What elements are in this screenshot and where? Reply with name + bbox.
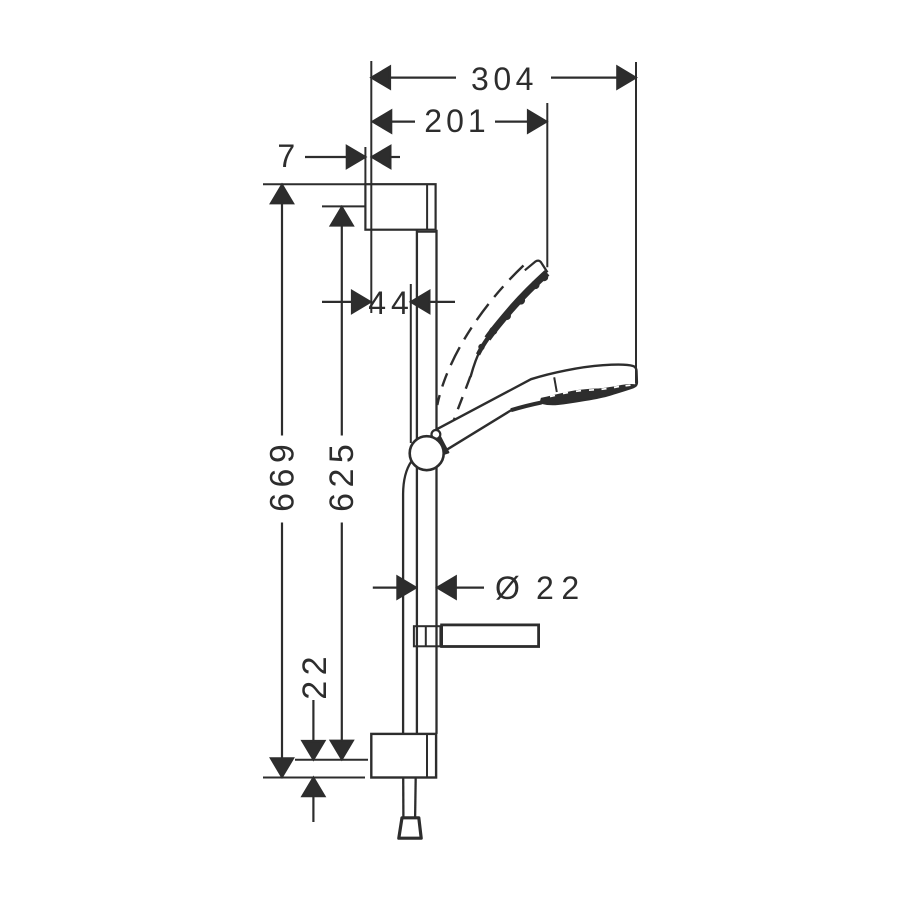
extension line (304 right) [635, 62, 637, 384]
dimension 201 [373, 111, 547, 133]
pivot knob (slider) [410, 436, 444, 470]
dimension 304 [372, 67, 636, 89]
extension line (669 top) [263, 183, 365, 185]
grip ring edge on lower outline [511, 403, 542, 411]
tick on face [554, 377, 557, 392]
wire: rail tube [417, 230, 437, 734]
spray face (nozzle band, crescent) [541, 385, 636, 404]
svg-text:625: 625 [323, 439, 361, 512]
hose [399, 462, 421, 839]
extension line (44 right, down to pivot knob) [410, 284, 412, 443]
dimension 22 (vertical, bottom) [302, 700, 324, 822]
extension line (625 top) [322, 205, 365, 207]
pivot nub (small lever on slider) [432, 430, 441, 439]
dimension diameter 22 [373, 577, 484, 599]
extension line (625 bottom / 22 top) [295, 759, 368, 761]
dimension texts [264, 61, 587, 700]
hand shower (dashed alternate position) [437, 261, 548, 424]
svg-text:Ø: Ø [495, 570, 523, 606]
extension line (669 bottom / 22 bottom) [263, 777, 365, 779]
hand shower (solid position) [436, 365, 637, 450]
extension line (wall face, x=371) [370, 61, 372, 313]
svg-text:22: 22 [536, 570, 587, 606]
svg-text:669: 669 [264, 439, 302, 512]
svg-text:22: 22 [296, 651, 334, 700]
dimension 44 [322, 291, 455, 313]
svg-text:201: 201 [424, 103, 489, 139]
white serration dashes along nozzle band [550, 385, 631, 396]
dimension 669 (vertical) [271, 185, 293, 777]
dimension 625 (vertical) [331, 207, 353, 759]
hose end nut [399, 818, 421, 838]
svg-text:44: 44 [368, 285, 414, 321]
top wall bracket [365, 184, 437, 232]
extension line (bracket left / 7 left) [364, 147, 366, 184]
svg-text:304: 304 [471, 61, 538, 97]
soap dish holder on rail [414, 626, 441, 646]
dimension 7 [305, 146, 400, 168]
svg-text:7: 7 [277, 138, 298, 174]
dark wedge at handle/knob joint [431, 432, 448, 455]
bottom wall bracket [371, 734, 436, 778]
soap dish [442, 625, 539, 647]
extension line (201 right) [546, 103, 548, 267]
